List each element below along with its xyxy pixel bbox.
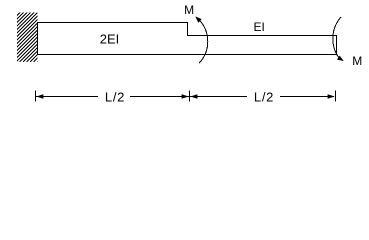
svg-text:M: M <box>352 54 362 68</box>
svg-text:L/2: L/2 <box>105 90 125 105</box>
svg-text:L/2: L/2 <box>254 90 274 105</box>
dimension arrow right (points right) <box>328 94 335 98</box>
svg-text:2EI: 2EI <box>100 32 120 47</box>
dimension tick middle <box>189 91 191 102</box>
moment arc at midspan <box>199 20 208 63</box>
dimension line left segment <box>36 96 98 98</box>
dimension arrow left (points left) <box>36 94 43 98</box>
midspan moment arrowhead <box>195 16 201 22</box>
dimension arrow mid-left (points right) <box>182 94 189 98</box>
dimension arrow mid-right (points left) <box>190 94 197 98</box>
beam outline (stepped cantilever) <box>38 23 337 55</box>
svg-text:M: M <box>184 3 194 17</box>
dimension line right segment <box>280 96 334 98</box>
svg-text:EI: EI <box>254 20 265 34</box>
fixed support wall hatching <box>0 12 87 62</box>
dimension tick right <box>335 91 337 102</box>
free-end moment arrowhead <box>337 56 344 61</box>
dimension line middle segment <box>130 96 247 98</box>
dimension tick left <box>35 91 37 102</box>
moment arc at free end <box>333 17 341 58</box>
